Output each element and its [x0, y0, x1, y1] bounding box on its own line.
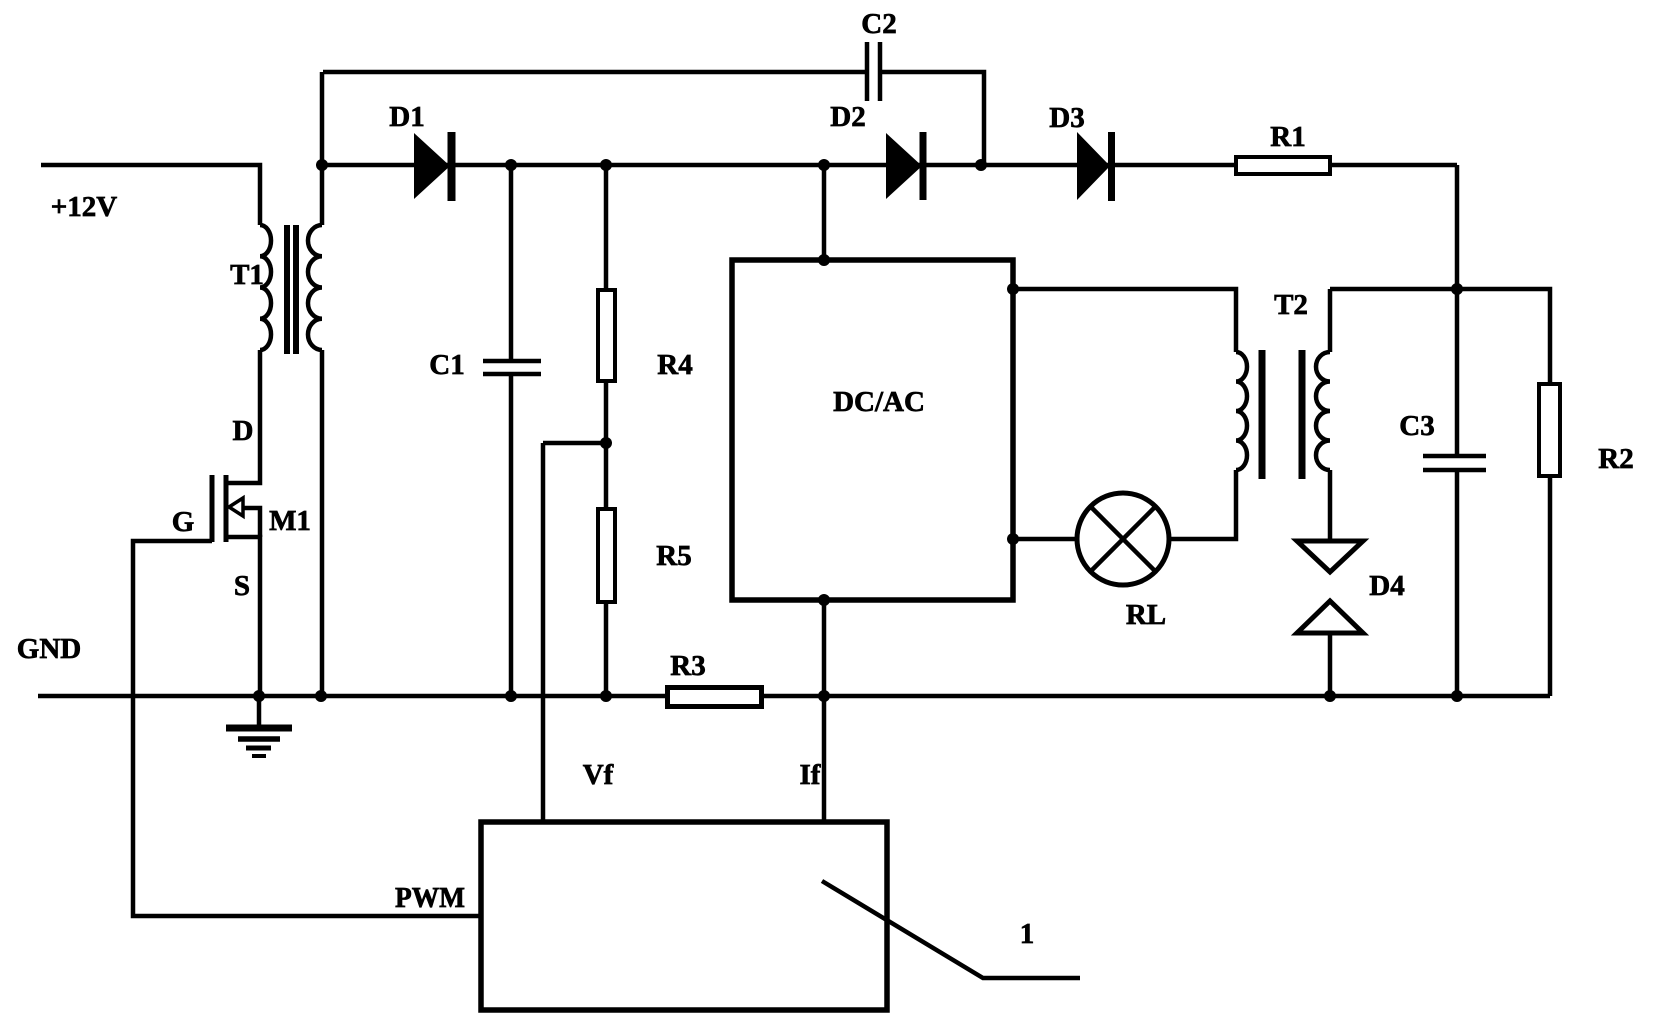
svg-text:G: G [172, 506, 195, 538]
svg-text:R1: R1 [1270, 121, 1305, 153]
svg-text:1: 1 [1020, 918, 1035, 950]
svg-text:Vf: Vf [583, 759, 614, 791]
svg-text:RL: RL [1126, 599, 1166, 631]
svg-text:R4: R4 [657, 349, 692, 381]
svg-text:T2: T2 [1274, 289, 1308, 321]
svg-text:DC/AC: DC/AC [833, 386, 925, 418]
svg-text:C1: C1 [429, 349, 464, 381]
svg-text:S: S [234, 570, 250, 602]
svg-text:PWM: PWM [395, 882, 465, 914]
svg-text:If: If [800, 759, 821, 791]
svg-text:D1: D1 [389, 101, 424, 133]
svg-text:D4: D4 [1369, 570, 1404, 602]
svg-text:R2: R2 [1598, 443, 1633, 475]
svg-text:M1: M1 [269, 505, 311, 537]
svg-text:T1: T1 [230, 259, 264, 291]
svg-text:GND: GND [17, 633, 81, 665]
svg-text:C3: C3 [1399, 410, 1434, 442]
svg-text:D2: D2 [830, 101, 865, 133]
svg-text:D: D [233, 415, 254, 447]
svg-text:+12V: +12V [51, 191, 118, 223]
svg-text:R3: R3 [670, 650, 705, 682]
svg-text:C2: C2 [861, 8, 896, 40]
svg-text:R5: R5 [656, 540, 691, 572]
svg-text:D3: D3 [1049, 102, 1084, 134]
